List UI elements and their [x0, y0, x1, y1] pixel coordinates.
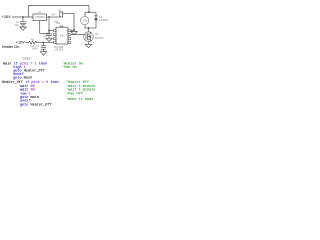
pin 4: [53, 42, 56, 44]
IC notch: [60, 26, 63, 27]
svg-text:goto main: goto main: [13, 76, 32, 81]
svg-text:2: 2: [57, 34, 58, 37]
ground: [85, 44, 91, 48]
wire +5V output: [47, 16, 62, 18]
resistor R1: [60, 12, 63, 17]
svg-text:'when it ends: 'when it ends: [66, 97, 93, 102]
resistor R2: [29, 41, 37, 44]
svg-text:1: 1: [57, 30, 59, 33]
ground: [40, 52, 46, 56]
capacitor C2: [20, 17, 26, 27]
svg-text:Q1: Q1: [95, 32, 99, 36]
node drain junction: [88, 27, 90, 29]
pin 5: [68, 42, 71, 44]
svg-text:LM7805: LM7805: [35, 15, 45, 19]
node junction C3: [43, 42, 45, 44]
wire +5V down to pin1: [48, 17, 50, 33]
diode D1: [94, 12, 98, 28]
ground: [46, 38, 52, 41]
svg-text:10F200: 10F200: [54, 48, 63, 52]
svg-text:+26V: +26V: [2, 15, 11, 19]
svg-text:IRF520: IRF520: [95, 36, 104, 40]
svg-text:D1: D1: [99, 15, 103, 19]
svg-text:PIC: PIC: [60, 34, 64, 38]
svg-text:100n: 100n: [32, 47, 38, 51]
wire gate: [71, 34, 85, 36]
wire +10V input: [26, 42, 29, 44]
pin 1: [53, 30, 56, 32]
svg-text:1N4007: 1N4007: [99, 18, 109, 22]
wire regulator ground: [40, 21, 49, 34]
node +5V junction: [48, 16, 50, 18]
svg-text:+10V: +10V: [16, 40, 25, 44]
pin numbers: [57, 30, 68, 45]
wire source down: [88, 41, 90, 44]
svg-text:3: 3: [57, 38, 59, 41]
wire drain down: [88, 28, 90, 32]
svg-text:goto Heater_Off: goto Heater_Off: [20, 102, 52, 107]
svg-text:10u: 10u: [15, 23, 20, 27]
wire top +26V rail: [29, 6, 90, 18]
pin 2: [53, 34, 56, 36]
svg-text:7: 7: [66, 34, 67, 37]
svg-text:IC1: IC1: [56, 21, 61, 25]
wire fan top: [84, 12, 86, 16]
fan M1 circle: [81, 16, 89, 24]
svg-text:Heater On: Heater On: [2, 45, 20, 49]
svg-text:R2: R2: [31, 38, 35, 42]
wire top node horizontal: [85, 11, 96, 13]
ground: [20, 27, 26, 30]
wire drain bus: [85, 27, 96, 29]
svg-text:+5V: +5V: [51, 13, 56, 17]
regulator U1: [33, 14, 47, 21]
svg-text:Fan: Fan: [83, 19, 88, 23]
pin 8: [68, 30, 71, 32]
ground: [71, 32, 77, 35]
node +26V junction: [22, 16, 24, 18]
svg-text:C1: C1: [43, 33, 47, 37]
IC U2 body: [56, 27, 68, 44]
capacitor C3: [41, 43, 46, 52]
pin 6: [68, 38, 71, 40]
node junction at ground stem: [73, 29, 75, 31]
pin 7: [68, 34, 71, 36]
svg-text:'Fan Off: 'Fan Off: [66, 91, 83, 96]
svg-text:'Fan On: 'Fan On: [62, 65, 77, 70]
svg-text:U1: U1: [38, 10, 42, 14]
pin 3: [53, 38, 56, 40]
svg-text:Code:: Code:: [22, 57, 33, 62]
wire fan bottom: [84, 25, 86, 28]
wire to pin 1: [49, 30, 53, 32]
node top junction: [88, 11, 90, 13]
transistor Q1: [84, 32, 94, 42]
svg-text:R1: R1: [58, 8, 62, 12]
wire R1 to ground stem: [63, 13, 74, 31]
wire pin5 to ground stem: [71, 30, 74, 32]
wire +26V input: [12, 16, 33, 18]
wire R2 to pin4: [37, 42, 54, 44]
capacitor C1: [46, 34, 52, 38]
